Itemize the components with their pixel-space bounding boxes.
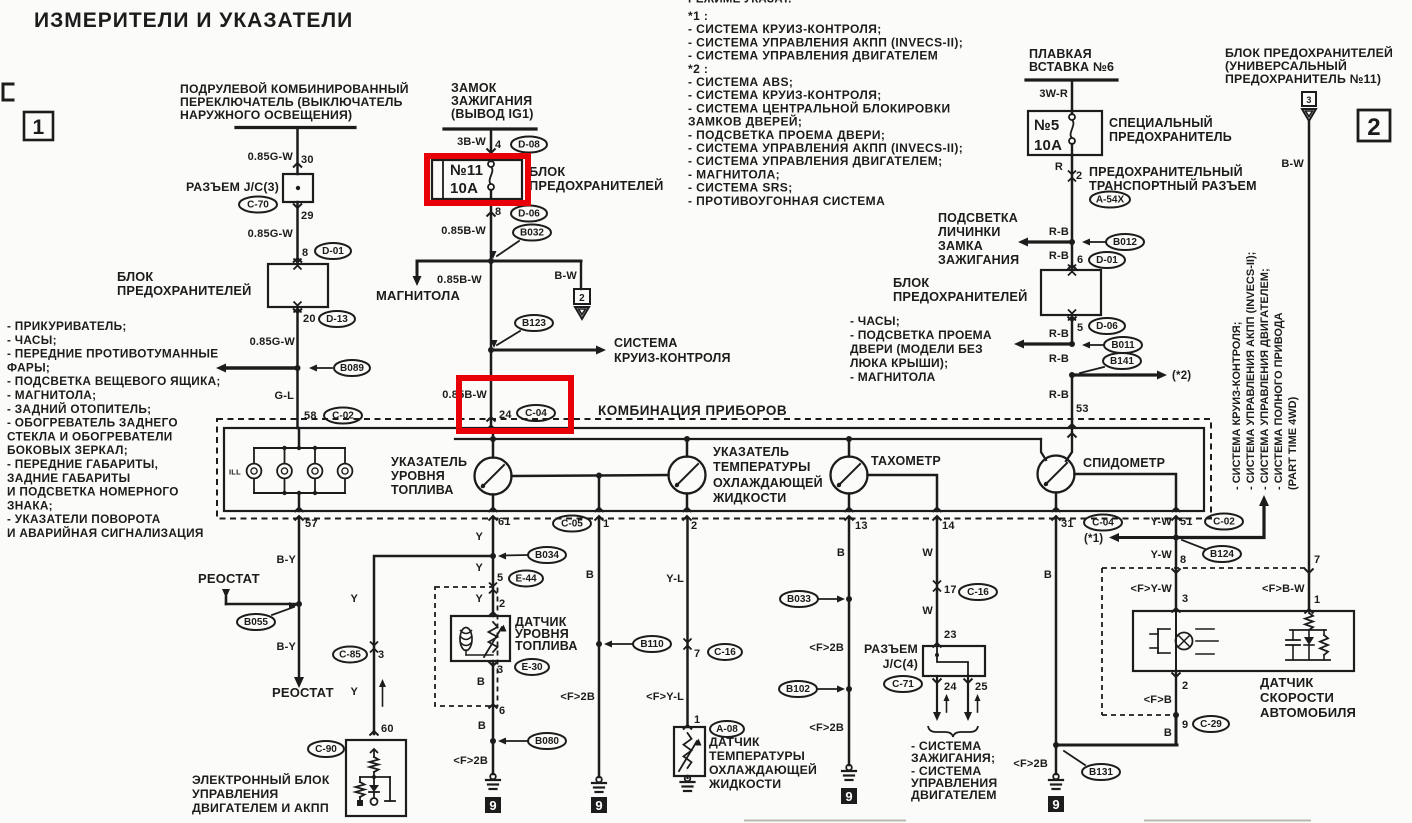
svg-text:ТОПЛИВА: ТОПЛИВА xyxy=(515,639,578,653)
connector oval B131 xyxy=(1082,764,1120,780)
cluster bottom crossings xyxy=(295,508,304,513)
component bar ignition switch xyxy=(444,127,536,130)
svg-text:ДВИГАТЕЛЕМ: ДВИГАТЕЛЕМ xyxy=(911,788,997,802)
svg-text:D-01: D-01 xyxy=(322,246,344,257)
svg-text:9: 9 xyxy=(595,798,602,813)
svg-text:- ПЕРЕДНИЕ ГАБАРИТЫ,: - ПЕРЕДНИЕ ГАБАРИТЫ, xyxy=(7,457,158,471)
wire arrow to key cylinder illumination xyxy=(1026,240,1072,243)
wire Y fuel sender pin 61 xyxy=(492,519,495,617)
wire fuel gauge bottom pin 61 xyxy=(492,495,495,512)
svg-text:№5: №5 xyxy=(1034,117,1059,134)
brace under JC4 outputs xyxy=(928,726,978,737)
fuel sender coil xyxy=(460,628,472,651)
svg-text:20: 20 xyxy=(303,313,316,325)
gauge fuel level xyxy=(475,458,512,495)
svg-text:ТЕМПЕРАТУРЫ: ТЕМПЕРАТУРЫ xyxy=(709,749,805,763)
coolant temp sensor box xyxy=(674,727,705,776)
svg-text:<F>B-W: <F>B-W xyxy=(1262,583,1305,595)
node courtesy branch xyxy=(1069,341,1075,347)
svg-text:W: W xyxy=(922,605,933,617)
svg-text:B032: B032 xyxy=(520,228,544,239)
ground pin31 xyxy=(1053,774,1059,780)
red highlight box fuse 11 xyxy=(427,156,528,203)
wire branch to magnitola xyxy=(417,260,581,263)
wire 3W-R xyxy=(1071,80,1074,114)
svg-text:B-Y: B-Y xyxy=(276,641,296,653)
svg-text:- СИСТЕМА УПРАВЛЕНИЯ ДВИГАТЕЛЕ: - СИСТЕМА УПРАВЛЕНИЯ ДВИГАТЕЛЕМ xyxy=(688,49,938,63)
wire tach right link pin 14 xyxy=(868,475,938,511)
ground box 9 fuel xyxy=(485,797,501,813)
svg-text:5: 5 xyxy=(1077,322,1083,334)
node key illumination branch xyxy=(1069,239,1075,245)
connector oval B089 xyxy=(334,360,370,376)
svg-text:- УКАЗАТЕЛИ ПОВОРОТА: - УКАЗАТЕЛИ ПОВОРОТА xyxy=(7,512,161,526)
node B110 junction xyxy=(596,641,602,647)
svg-text:Y: Y xyxy=(475,593,483,605)
svg-text:29: 29 xyxy=(301,210,314,222)
ground pin13 xyxy=(846,765,852,771)
wire 53 into speedometer xyxy=(1066,428,1072,461)
wire lamp module feed xyxy=(298,428,301,448)
svg-text:C-71: C-71 xyxy=(892,679,914,690)
svg-text:- СИСТЕМА КРУИЗ-КОНТРОЛЯ;: - СИСТЕМА КРУИЗ-КОНТРОЛЯ; xyxy=(688,22,882,36)
connector oval D-01 right xyxy=(1089,252,1125,268)
svg-text:ЗАЖИГАНИЯ;: ЗАЖИГАНИЯ; xyxy=(911,751,995,765)
gauge speedometer xyxy=(1038,456,1075,493)
svg-text:4: 4 xyxy=(495,139,502,151)
svg-text:14: 14 xyxy=(942,520,955,532)
connector oval C-85 xyxy=(333,647,367,663)
svg-text:ФАРЫ;: ФАРЫ; xyxy=(7,360,50,374)
svg-text:РЕОСТАТ: РЕОСТАТ xyxy=(272,685,334,700)
svg-text:ЛЮКА КРЫШИ);: ЛЮКА КРЫШИ); xyxy=(850,356,948,370)
svg-text:C-16: C-16 xyxy=(967,587,989,598)
fuse block box column 3 xyxy=(1041,270,1101,315)
svg-text:B124: B124 xyxy=(1210,549,1234,560)
connector oval B012 xyxy=(1106,234,1144,250)
wire W pin 14 to JC4 xyxy=(936,519,939,647)
connector oval A-08 xyxy=(710,721,744,737)
speed sensor dashed box xyxy=(1102,568,1308,715)
svg-text:B141: B141 xyxy=(1110,356,1134,367)
svg-text:Y-W: Y-W xyxy=(1151,516,1173,528)
fuse F11 10A xyxy=(488,161,494,167)
wire tach gauge top xyxy=(848,439,851,457)
connector oval B124 xyxy=(1203,546,1241,562)
svg-text:B080: B080 xyxy=(535,736,559,747)
ground box 9 pin31 xyxy=(1048,796,1064,812)
svg-text:*1 :: *1 : xyxy=(688,9,708,23)
wire JC4 output 25 xyxy=(967,676,969,716)
svg-text:- СИСТЕМА ABS;: - СИСТЕМА ABS; xyxy=(688,75,793,89)
svg-text:R-B: R-B xyxy=(1049,389,1069,401)
svg-text:B: B xyxy=(477,676,485,688)
wire B-Y to rheostat xyxy=(298,519,301,605)
svg-text:НАРУЖНОГО ОСВЕЩЕНИЯ): НАРУЖНОГО ОСВЕЩЕНИЯ) xyxy=(180,108,352,122)
svg-text:B089: B089 xyxy=(340,363,364,374)
svg-text:КОМБИНАЦИЯ ПРИБОРОВ: КОМБИНАЦИЯ ПРИБОРОВ xyxy=(598,403,787,418)
svg-text:БОКОВЫХ ЗЕРКАЛ;: БОКОВЫХ ЗЕРКАЛ; xyxy=(7,443,128,457)
svg-text:8: 8 xyxy=(495,206,501,218)
svg-text:C-90: C-90 xyxy=(315,744,337,755)
junction box J/C(3) xyxy=(283,174,313,202)
svg-text:(ВЫВОД IG1): (ВЫВОД IG1) xyxy=(451,107,534,121)
page edge bracket mark xyxy=(3,84,13,100)
svg-text:КРУИЗ-КОНТРОЛЯ: КРУИЗ-КОНТРОЛЯ xyxy=(614,351,731,365)
connector oval B102 xyxy=(779,681,817,697)
wire R-B pin 5 xyxy=(1071,315,1074,344)
component bar fusible link xyxy=(1026,78,1117,81)
connector oval C-90 xyxy=(308,741,344,757)
svg-text:B: B xyxy=(1164,727,1172,739)
svg-text:9: 9 xyxy=(489,798,496,813)
node B033 junction xyxy=(846,596,852,602)
svg-text:ДАТЧИК: ДАТЧИК xyxy=(709,735,760,749)
svg-text:A-08: A-08 xyxy=(716,724,738,735)
fuel sender box xyxy=(451,616,510,661)
svg-text:13: 13 xyxy=(855,520,868,532)
svg-text:C-05: C-05 xyxy=(561,519,583,530)
svg-text:СПИДОМЕТР: СПИДОМЕТР xyxy=(1083,456,1165,470)
ECU internal diode xyxy=(373,777,375,785)
wire return drop pin 1 xyxy=(598,476,601,512)
wire arrow to clock and courtesy lamps xyxy=(1022,342,1072,345)
wire gauge return link xyxy=(512,475,669,476)
connector oval C-16 sensor xyxy=(708,644,742,660)
svg-text:B012: B012 xyxy=(1113,237,1137,248)
svg-text:ПЛАВКАЯ: ПЛАВКАЯ xyxy=(1029,47,1092,61)
svg-text:8: 8 xyxy=(1180,554,1186,566)
svg-text:0.85B-W: 0.85B-W xyxy=(437,274,482,286)
svg-text:УКАЗАТЕЛЬ: УКАЗАТЕЛЬ xyxy=(391,455,467,469)
svg-text:<F>2B: <F>2B xyxy=(809,642,844,654)
svg-text:9: 9 xyxy=(1182,719,1188,731)
ground box 9 pin1 xyxy=(591,797,607,813)
svg-text:6: 6 xyxy=(1077,254,1083,266)
wire Y-L pin 2 to temp sensor xyxy=(686,519,689,728)
svg-text:5: 5 xyxy=(497,572,503,584)
svg-text:R-B: R-B xyxy=(1049,226,1069,238)
svg-text:РАЗЪЕМ J/C(3): РАЗЪЕМ J/C(3) xyxy=(186,180,279,194)
svg-text:- ЧАСЫ;: - ЧАСЫ; xyxy=(850,314,900,328)
svg-text:3: 3 xyxy=(497,664,503,676)
connector oval D-13 xyxy=(319,311,355,327)
svg-text:D-08: D-08 xyxy=(518,140,540,151)
wire Y branch from fuel sender node xyxy=(374,556,493,734)
wire arrow to star1 xyxy=(1116,536,1176,539)
wire 0.85B-W pin 8 xyxy=(490,199,493,261)
svg-text:C-85: C-85 xyxy=(339,650,361,661)
svg-text:6: 6 xyxy=(499,705,505,717)
svg-text:61: 61 xyxy=(498,516,511,528)
svg-text:R-B: R-B xyxy=(1049,353,1069,365)
svg-text:СТЕКЛА И ОБОГРЕВАТЕЛИ: СТЕКЛА И ОБОГРЕВАТЕЛИ xyxy=(7,429,173,443)
svg-text:(УНИВЕРСАЛЬНЫЙ: (УНИВЕРСАЛЬНЫЙ xyxy=(1225,58,1347,73)
ECU internal resistor left xyxy=(359,777,361,782)
connector oval B141 xyxy=(1103,353,1141,369)
wire B pin 1 to ground xyxy=(598,519,601,778)
connector oval C-71 xyxy=(884,676,922,692)
svg-text:R-B: R-B xyxy=(1049,328,1069,340)
svg-text:1: 1 xyxy=(33,116,45,139)
svg-text:- СИСТЕМА SRS;: - СИСТЕМА SRS; xyxy=(688,181,793,195)
svg-text:E-44: E-44 xyxy=(515,574,537,585)
svg-text:- МАГНИТОЛА;: - МАГНИТОЛА; xyxy=(688,167,780,181)
svg-text:ВСТАВКА №6: ВСТАВКА №6 xyxy=(1029,60,1114,74)
svg-text:0.85G-W: 0.85G-W xyxy=(248,151,294,163)
svg-text:- СИСТЕМА УПРАВЛЕНИЯ АКПП (INV: - СИСТЕМА УПРАВЛЕНИЯ АКПП (INVECS-II); xyxy=(688,141,963,155)
wire down to ground link xyxy=(1175,715,1178,745)
svg-text:РЕОСТАТ: РЕОСТАТ xyxy=(198,571,260,586)
wire G-L to instrument cluster xyxy=(296,368,299,428)
svg-text:R: R xyxy=(1055,161,1063,173)
svg-text:C-02: C-02 xyxy=(1213,517,1235,528)
svg-text:C-70: C-70 xyxy=(247,200,269,211)
node speed sensor ground junction xyxy=(1053,742,1059,748)
connector oval B032 xyxy=(513,225,551,241)
svg-text:Y: Y xyxy=(350,686,358,698)
svg-text:УКАЗАТЕЛЬ: УКАЗАТЕЛЬ xyxy=(713,445,789,459)
fuse box No5 10A xyxy=(1028,111,1102,155)
node rheostat junction xyxy=(296,601,302,607)
svg-text:И ПОДСВЕТКА НОМЕРНОГО: И ПОДСВЕТКА НОМЕРНОГО xyxy=(7,485,179,499)
page marker box 2 xyxy=(1358,110,1390,141)
node magnitola branch xyxy=(488,258,494,264)
fuse F5 10A xyxy=(1069,114,1075,120)
wire arrow to consumer list xyxy=(224,366,298,369)
svg-text:ЗАЖИГАНИЯ: ЗАЖИГАНИЯ xyxy=(451,94,532,108)
svg-text:B: B xyxy=(478,720,486,732)
svg-text:<F>Y-L: <F>Y-L xyxy=(646,691,684,703)
svg-text:ЗАЖИГАНИЯ: ЗАЖИГАНИЯ xyxy=(938,253,1019,267)
svg-text:57: 57 xyxy=(305,518,318,530)
svg-text:(*1): (*1) xyxy=(1084,533,1103,545)
svg-text:B102: B102 xyxy=(786,684,810,695)
svg-text:ПРЕДОХРАНИТЕЛЕЙ: ПРЕДОХРАНИТЕЛЕЙ xyxy=(117,283,252,298)
wire branch B-W to connector 2 xyxy=(580,261,582,289)
svg-text:Y: Y xyxy=(475,562,483,574)
ground box 9 pin13 xyxy=(841,788,857,804)
wire 0.85B-W pin 24 xyxy=(490,350,493,428)
svg-text:- ОБОГРЕВАТЕЛЬ ЗАДНЕГО: - ОБОГРЕВАТЕЛЬ ЗАДНЕГО xyxy=(7,416,178,430)
node star1 junction xyxy=(1173,535,1179,541)
svg-text:- ПЕРЕДНИЕ ПРОТИВОТУМАННЫЕ: - ПЕРЕДНИЕ ПРОТИВОТУМАННЫЕ xyxy=(7,347,218,361)
svg-text:C-29: C-29 xyxy=(1200,719,1222,730)
wire pin 2 below speed sensor xyxy=(1175,671,1177,715)
svg-text:- СИСТЕМА ЦЕНТРАЛЬНОЙ БЛОКИРОВ: - СИСТЕМА ЦЕНТРАЛЬНОЙ БЛОКИРОВКИ xyxy=(688,100,950,115)
ECU box xyxy=(346,740,406,816)
svg-text:(PART TIME 4WD): (PART TIME 4WD) xyxy=(1287,396,1299,490)
svg-text:G-L: G-L xyxy=(274,390,294,402)
svg-text:СПЕЦИАЛЬНЫЙ: СПЕЦИАЛЬНЫЙ xyxy=(1109,115,1213,130)
connector oval D-01 xyxy=(315,243,351,259)
wire bus to speedometer left xyxy=(1041,439,1046,460)
svg-text:(*2): (*2) xyxy=(1172,370,1191,382)
svg-text:И АВАРИЙНАЯ СИГНАЛИЗАЦИЯ: И АВАРИЙНАЯ СИГНАЛИЗАЦИЯ xyxy=(7,526,204,540)
svg-text:0.85B-W: 0.85B-W xyxy=(441,225,486,237)
connector triangle below box 2 xyxy=(575,307,589,319)
wire speedo right link pin 51 xyxy=(1075,474,1177,511)
svg-text:БЛОК: БЛОК xyxy=(117,269,153,284)
svg-text:1: 1 xyxy=(1314,594,1320,606)
ground fuel sender xyxy=(490,774,496,780)
svg-text:B123: B123 xyxy=(522,318,546,329)
svg-text:ЭЛЕКТРОННЫЙ БЛОК: ЭЛЕКТРОННЫЙ БЛОК xyxy=(192,772,330,787)
svg-text:ПРЕДОХРАНИТЕЛЬ: ПРЕДОХРАНИТЕЛЬ xyxy=(1109,130,1232,144)
junction box J/C(4) xyxy=(923,646,985,676)
svg-text:<F>2B: <F>2B xyxy=(1013,758,1048,770)
wire B below fuel sender xyxy=(492,661,495,774)
svg-text:9: 9 xyxy=(845,789,852,804)
speed sensor box xyxy=(1133,611,1354,671)
svg-text:B-Y: B-Y xyxy=(276,554,296,566)
svg-text:A-54X: A-54X xyxy=(1096,195,1125,206)
wire link from speed sensor ground xyxy=(1056,744,1177,747)
svg-text:8: 8 xyxy=(302,247,308,259)
svg-text:<F>Y-W: <F>Y-W xyxy=(1130,583,1172,595)
wire arrow to cruise control system xyxy=(491,349,598,352)
svg-text:3: 3 xyxy=(1306,95,1311,105)
coolant temp sensor variable resistor xyxy=(684,733,692,768)
svg-text:- СИСТЕМА УПРАВЛЕНИЯ ДВИГАТЕЛЕ: - СИСТЕМА УПРАВЛЕНИЯ ДВИГАТЕЛЕМ; xyxy=(688,154,943,168)
svg-text:- ПОДСВЕТКА ПРОЕМА: - ПОДСВЕТКА ПРОЕМА xyxy=(850,328,992,342)
wire R transport connector xyxy=(1071,155,1074,242)
svg-text:- ПОДСВЕТКА ПРОЕМА ДВЕРИ;: - ПОДСВЕТКА ПРОЕМА ДВЕРИ; xyxy=(688,128,885,142)
svg-text:3: 3 xyxy=(1182,593,1188,605)
svg-text:Y-L: Y-L xyxy=(666,573,684,585)
node B080 junction xyxy=(490,738,496,744)
svg-text:ОХЛАЖДАЮЩЕЙ: ОХЛАЖДАЮЩЕЙ xyxy=(709,762,817,777)
svg-text:7: 7 xyxy=(694,648,700,660)
svg-text:B: B xyxy=(1044,569,1052,581)
direction arrow up output 25 xyxy=(977,698,979,712)
svg-text:ИЗМЕРИТЕЛИ И УКАЗАТЕЛИ: ИЗМЕРИТЕЛИ И УКАЗАТЕЛИ xyxy=(34,9,353,32)
svg-text:1: 1 xyxy=(603,518,609,530)
wire JC4 output 24 xyxy=(936,676,938,716)
red highlight box pin 24 xyxy=(459,378,571,431)
svg-text:3: 3 xyxy=(378,649,384,661)
wire rheostat stub xyxy=(222,589,230,598)
component bar column switch xyxy=(236,126,355,129)
svg-text:ПРЕДОХРАНИТЕЛЬНЫЙ: ПРЕДОХРАНИТЕЛЬНЫЙ xyxy=(1089,164,1243,179)
connector oval C-16 tach xyxy=(959,584,997,600)
svg-text:ЗАМОК: ЗАМОК xyxy=(451,81,497,95)
faint next page marks xyxy=(745,820,905,822)
svg-text:ПОДСВЕТКА: ПОДСВЕТКА xyxy=(938,211,1018,225)
svg-text:B131: B131 xyxy=(1089,767,1113,778)
wire Y-W pin 51 xyxy=(1175,519,1178,612)
svg-text:- СИСТЕМА УПРАВЛЕНИЯ АКПП (INV: - СИСТЕМА УПРАВЛЕНИЯ АКПП (INVECS-II); xyxy=(1245,252,1257,490)
svg-text:C-16: C-16 xyxy=(714,647,736,658)
wire speedo bottom pin 31 xyxy=(1055,493,1058,512)
wire 24 feed to fuel gauge xyxy=(492,428,495,458)
svg-text:E-30: E-30 xyxy=(521,662,543,673)
svg-text:2: 2 xyxy=(499,598,505,610)
svg-text:ТАХОМЕТР: ТАХОМЕТР xyxy=(871,454,941,468)
connector oval D-06 right xyxy=(1089,318,1125,334)
gauge coolant temperature xyxy=(669,457,706,494)
wire B pin 31 to ground xyxy=(1055,519,1058,775)
connector oval C-04 xyxy=(517,405,555,421)
wire to cruise system node xyxy=(490,261,493,350)
svg-text:- СИСТЕМА ПОЛНОГО ПРИВОДА: - СИСТЕМА ПОЛНОГО ПРИВОДА xyxy=(1273,312,1285,490)
ECU internal pull-up resistor xyxy=(370,749,378,753)
svg-text:C-04: C-04 xyxy=(525,408,547,419)
svg-text:ЗАМКОВ ДВЕРЕЙ;: ЗАМКОВ ДВЕРЕЙ; xyxy=(688,114,802,129)
svg-text:3B-W: 3B-W xyxy=(457,136,486,148)
connector oval B033 xyxy=(780,591,818,607)
connector oval D-06 xyxy=(511,206,547,222)
svg-text:ПОДРУЛЕВОЙ КОМБИНИРОВАННЫЙ: ПОДРУЛЕВОЙ КОМБИНИРОВАННЫЙ xyxy=(180,81,409,96)
svg-text:РЕЖИМЕ УКАЗАТ.: РЕЖИМЕ УКАЗАТ. xyxy=(688,0,792,6)
svg-text:0.85G-W: 0.85G-W xyxy=(250,336,296,348)
svg-text:ПРЕДОХРАНИТЕЛЕЙ: ПРЕДОХРАНИТЕЛЕЙ xyxy=(529,178,664,193)
svg-text:10A: 10A xyxy=(450,180,478,197)
svg-text:- ЧАСЫ;: - ЧАСЫ; xyxy=(7,333,57,347)
connector oval B080 xyxy=(528,733,566,749)
wire B-W long right xyxy=(1308,122,1311,611)
gauge tachometer xyxy=(831,457,868,494)
instrument cluster dashed box xyxy=(217,419,1211,519)
wire tach gauge bottom pin 13 xyxy=(848,494,851,512)
page marker box 1 xyxy=(24,112,53,140)
svg-text:23: 23 xyxy=(944,629,957,641)
svg-text:2: 2 xyxy=(1367,114,1381,141)
svg-text:53: 53 xyxy=(1076,403,1089,415)
svg-text:БЛОК: БЛОК xyxy=(893,275,929,290)
svg-text:СИСТЕМА: СИСТЕМА xyxy=(614,336,678,350)
svg-text:АВТОМОБИЛЯ: АВТОМОБИЛЯ xyxy=(1260,705,1356,720)
svg-text:- ПОДСВЕТКА ВЕЩЕВОГО ЯЩИКА;: - ПОДСВЕТКА ВЕЩЕВОГО ЯЩИКА; xyxy=(7,374,221,388)
svg-text:<F>2B: <F>2B xyxy=(560,691,595,703)
fuse block box column 1 xyxy=(268,264,328,307)
connector oval A-54X xyxy=(1090,192,1130,208)
instrument cluster solid box xyxy=(224,428,1204,511)
node B034 junction xyxy=(490,553,496,559)
connector oval C-70 xyxy=(239,197,277,213)
svg-text:J/C(4): J/C(4) xyxy=(883,657,918,671)
node C-29 junction xyxy=(1173,712,1179,718)
svg-text:УРОВНЯ: УРОВНЯ xyxy=(391,469,445,483)
wire 3B-W pin 4 xyxy=(490,129,493,161)
connector oval B034 xyxy=(528,547,566,563)
svg-text:ДВЕРИ (МОДЕЛИ БЕЗ: ДВЕРИ (МОДЕЛИ БЕЗ xyxy=(850,342,983,356)
svg-text:D-06: D-06 xyxy=(1096,321,1118,332)
fuel sender dashed box xyxy=(435,587,498,706)
svg-text:31: 31 xyxy=(1061,518,1074,530)
svg-text:B034: B034 xyxy=(535,550,559,561)
node cruise branch xyxy=(488,347,494,353)
svg-text:D-01: D-01 xyxy=(1096,255,1118,266)
wire 0.85G-W from switch xyxy=(296,128,299,175)
fuel sender variable resistor xyxy=(489,622,498,652)
svg-text:ПЕРЕКЛЮЧАТЕЛЬ (ВЫКЛЮЧАТЕЛЬ: ПЕРЕКЛЮЧАТЕЛЬ (ВЫКЛЮЧАТЕЛЬ xyxy=(180,95,403,109)
svg-text:- МАГНИТОЛА: - МАГНИТОЛА xyxy=(850,370,936,384)
svg-text:ТЕМПЕРАТУРЫ: ТЕМПЕРАТУРЫ xyxy=(713,460,811,474)
svg-text:- СИСТЕМА КРУИЗ-КОНТРОЛЯ;: - СИСТЕМА КРУИЗ-КОНТРОЛЯ; xyxy=(688,88,882,102)
svg-text:ЗНАКА;: ЗНАКА; xyxy=(7,498,53,512)
svg-text:УПРАВЛЕНИЯ: УПРАВЛЕНИЯ xyxy=(192,787,278,801)
node junction to consumers xyxy=(295,365,301,371)
svg-text:1: 1 xyxy=(694,714,700,726)
svg-text:ДАТЧИК: ДАТЧИК xyxy=(1260,675,1314,690)
svg-text:B-W: B-W xyxy=(1281,158,1304,170)
svg-text:2: 2 xyxy=(691,520,697,532)
wire R-B pin 6 xyxy=(1071,242,1074,270)
svg-text:- ПРОТИВОУГОННАЯ СИСТЕМА: - ПРОТИВОУГОННАЯ СИСТЕМА xyxy=(688,194,885,208)
connector oval E-44 xyxy=(509,571,543,587)
connector oval C-29 xyxy=(1193,716,1229,732)
